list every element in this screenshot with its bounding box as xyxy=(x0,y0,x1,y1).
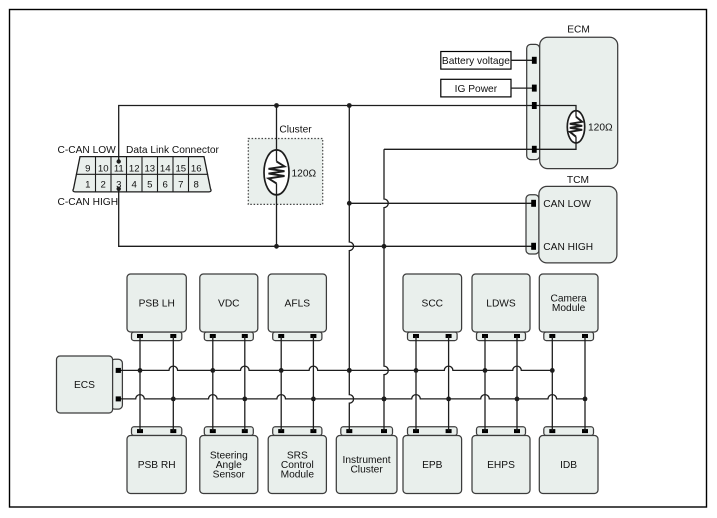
svg-text:Cluster: Cluster xyxy=(350,465,383,476)
svg-text:Module: Module xyxy=(281,469,315,480)
svg-text:2: 2 xyxy=(101,179,106,190)
ECM pin 4 xyxy=(532,146,537,153)
resistor 120 ohm in ECM xyxy=(567,111,613,143)
svg-text:C-CAN HIGH: C-CAN HIGH xyxy=(58,197,119,208)
module SRS Control Module xyxy=(268,427,326,494)
svg-text:120Ω: 120Ω xyxy=(292,168,317,179)
wire trunk CAN LOW vertical (to Instrument Cluster pin 1) xyxy=(347,106,354,431)
wire ECM pin 4 branch xyxy=(384,148,534,150)
label C-CAN LOW xyxy=(58,145,117,156)
wire SCC/EPB CAN low drop xyxy=(415,336,417,431)
TCM connector strip xyxy=(526,195,539,254)
svg-text:Module: Module xyxy=(552,303,586,314)
svg-text:1: 1 xyxy=(85,179,90,190)
svg-text:5: 5 xyxy=(147,179,152,190)
IG Power source box xyxy=(441,79,511,97)
ECM module body U1 xyxy=(540,24,618,168)
svg-text:8: 8 xyxy=(194,179,199,190)
ECM pin 2 xyxy=(532,85,537,92)
node DLC pin 3 (C-CAN HIGH) xyxy=(117,187,121,191)
module IDB xyxy=(539,427,598,494)
data link connector J1 (OBD trapezoid) xyxy=(73,157,211,192)
wire AFLS/SRS Control Module CAN high drop xyxy=(312,336,314,431)
svg-text:Sensor: Sensor xyxy=(213,469,246,480)
wire IG Power to ECM pin 2 xyxy=(511,87,533,89)
svg-text:CAN LOW: CAN LOW xyxy=(543,199,591,210)
svg-text:PSB LH: PSB LH xyxy=(139,298,175,309)
node DLC pin 11 (C-CAN LOW) xyxy=(117,159,121,163)
wire trunk CAN HIGH vertical (to Instrument Cluster pin 2) xyxy=(382,149,389,431)
resistor 120 ohm in Cluster xyxy=(264,150,316,195)
wire LDWS/EHPS CAN high drop xyxy=(516,336,518,431)
module LDWS xyxy=(472,274,530,341)
wire lower CAN HIGH bus xyxy=(119,395,588,402)
ECS module body xyxy=(57,356,113,413)
ECM connector strip xyxy=(527,44,540,159)
wire Battery voltage to ECM pin 1 xyxy=(511,59,533,61)
ECM pin 1 xyxy=(532,57,537,64)
module SCC xyxy=(403,274,462,341)
svg-text:Battery voltage: Battery voltage xyxy=(442,56,510,67)
svg-text:EPB: EPB xyxy=(422,460,443,471)
svg-text:Data Link Connector: Data Link Connector xyxy=(126,145,219,156)
ECS pin CAN low xyxy=(116,368,121,373)
wire LDWS/EHPS CAN low drop xyxy=(484,336,486,431)
svg-text:11: 11 xyxy=(114,164,124,175)
wire C-CAN HIGH bus (DLC pin 3 to TCM CAN HIGH pin) xyxy=(119,189,533,249)
module EHPS xyxy=(472,427,530,494)
wire PSB LH/PSB RH CAN low drop xyxy=(139,336,141,431)
svg-text:TCM: TCM xyxy=(567,175,589,186)
label C-CAN HIGH xyxy=(58,197,119,208)
svg-text:4: 4 xyxy=(132,179,138,190)
svg-text:13: 13 xyxy=(144,164,155,175)
module PSB RH xyxy=(127,427,186,494)
module AFLS xyxy=(268,274,326,341)
Cluster box (dotted) xyxy=(248,124,322,204)
svg-text:SCC: SCC xyxy=(422,298,444,309)
wire Camera Module/IDB CAN high drop xyxy=(584,336,586,431)
ECS pin CAN high xyxy=(116,396,121,401)
module VDC xyxy=(200,274,258,341)
wire lower CAN LOW bus xyxy=(119,366,555,373)
TCM pin CAN LOW xyxy=(531,200,536,207)
wire TCM CAN LOW branch xyxy=(347,201,533,206)
wire VDC/Steering Angle Sensor CAN high drop xyxy=(244,336,246,431)
svg-text:Cluster: Cluster xyxy=(279,124,312,135)
svg-text:6: 6 xyxy=(163,179,168,190)
TCM pin CAN HIGH xyxy=(531,243,536,250)
svg-text:120Ω: 120Ω xyxy=(588,123,613,134)
svg-text:CAN HIGH: CAN HIGH xyxy=(543,242,593,253)
wire Cluster 120 ohm vertical xyxy=(276,106,278,247)
ECS connector strip xyxy=(111,359,123,409)
wire C-CAN LOW top bus (DLC pin 11 to ECM pin 3) xyxy=(119,103,534,161)
ECM pin 3 xyxy=(532,102,537,109)
svg-text:AFLS: AFLS xyxy=(285,298,311,309)
module Camera Module xyxy=(539,274,598,341)
svg-text:10: 10 xyxy=(98,164,109,175)
wire VDC/Steering Angle Sensor CAN low drop xyxy=(212,336,214,431)
wire Camera Module/IDB CAN low drop xyxy=(551,336,553,431)
wire SCC/EPB CAN high drop xyxy=(448,336,450,431)
module Steering Angle Sensor xyxy=(200,427,258,494)
TCM module body U2 xyxy=(539,175,617,263)
svg-text:9: 9 xyxy=(85,164,90,175)
module PSB LH xyxy=(127,274,186,341)
wire ECM internal 120 ohm loop xyxy=(535,106,576,150)
svg-text:7: 7 xyxy=(178,179,183,190)
svg-text:LDWS: LDWS xyxy=(486,298,516,309)
svg-text:IDB: IDB xyxy=(560,460,577,471)
svg-text:IG Power: IG Power xyxy=(455,84,498,95)
svg-text:C-CAN LOW: C-CAN LOW xyxy=(58,145,117,156)
svg-text:ECS: ECS xyxy=(74,380,95,391)
wire PSB LH/PSB RH CAN high drop xyxy=(172,336,174,431)
svg-text:14: 14 xyxy=(160,164,171,175)
label Data Link Connector xyxy=(126,145,219,156)
svg-text:16: 16 xyxy=(191,164,202,175)
svg-text:VDC: VDC xyxy=(218,298,240,309)
svg-text:EHPS: EHPS xyxy=(487,460,515,471)
module Instrument Cluster xyxy=(336,427,397,494)
svg-text:15: 15 xyxy=(175,164,186,175)
Battery voltage source box xyxy=(441,52,511,70)
wire AFLS/SRS Control Module CAN low drop xyxy=(280,336,282,431)
svg-text:12: 12 xyxy=(129,164,140,175)
svg-text:PSB RH: PSB RH xyxy=(138,460,176,471)
svg-text:ECM: ECM xyxy=(567,24,590,35)
module EPB xyxy=(403,427,462,494)
